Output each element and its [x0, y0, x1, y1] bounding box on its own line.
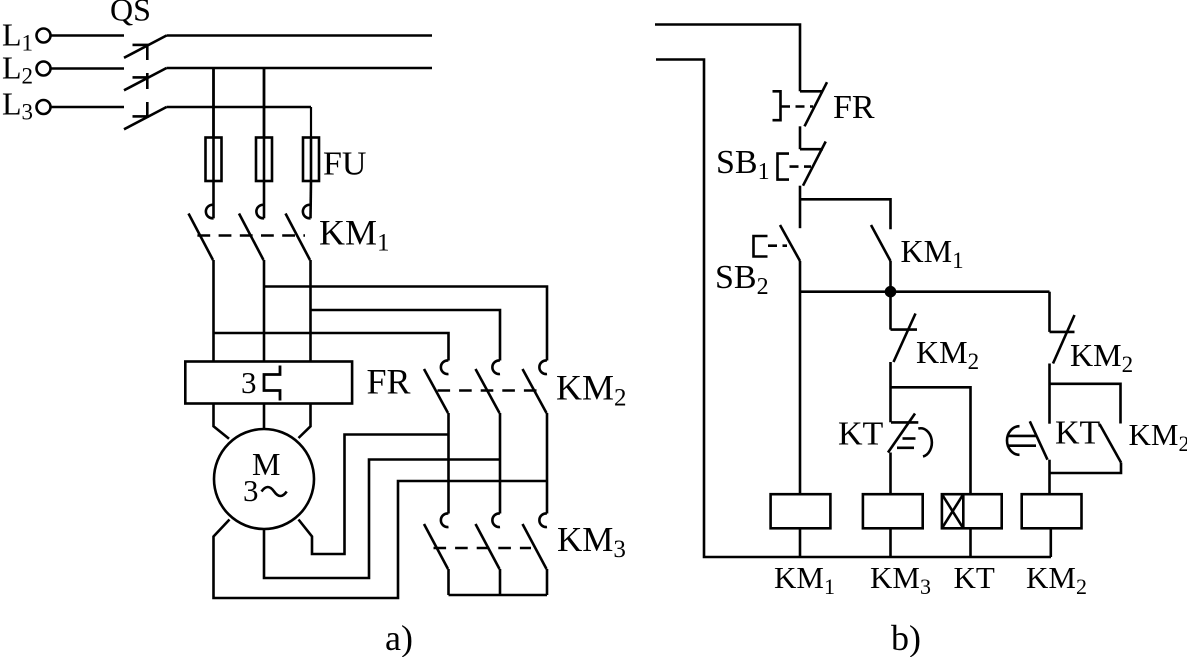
contactor KM2 pole 1 — [424, 360, 449, 513]
coil KT with X section — [942, 494, 1002, 557]
fuse FU pole 3 — [303, 138, 319, 219]
wire node line — [800, 290, 1050, 293]
wire motor U2 to KM2 pole3 — [214, 481, 548, 598]
contactor KM1 pole 2 — [239, 205, 264, 362]
svg-text:SB2: SB2 — [715, 259, 769, 300]
wire FR to motor W1 — [299, 404, 311, 439]
wire control left rail and bottom bar — [656, 60, 1051, 558]
label KM2 NC left — [916, 334, 979, 374]
KM2 linkage (dashed) — [438, 389, 538, 392]
svg-text:QS: QS — [110, 0, 151, 28]
switch QS pole 2 — [124, 68, 167, 90]
svg-text:KM2: KM2 — [1129, 417, 1187, 456]
thermal relay FR box — [185, 362, 352, 404]
KM1 linkage (dashed) — [197, 234, 305, 237]
svg-text:KT: KT — [1055, 415, 1101, 452]
label a) — [385, 618, 413, 657]
svg-text:FR: FR — [367, 362, 411, 402]
KM3 linkage (dashed) — [434, 547, 532, 550]
label KM2 NC right — [1070, 337, 1133, 377]
wire L3 to QS — [51, 106, 125, 109]
FR value label 3 — [241, 365, 257, 400]
wire motor V2 to KM2 pole2 — [264, 460, 500, 579]
svg-text:KM1: KM1 — [319, 213, 390, 257]
label KM3 — [557, 520, 626, 563]
QS linkage (dashed) — [146, 44, 149, 119]
KT delay symbol right — [1007, 426, 1037, 455]
label KM2 — [556, 368, 627, 412]
contactor KM2 pole 3 — [523, 360, 548, 513]
label L3 — [2, 86, 33, 125]
fuse FU pole 2 — [256, 138, 272, 219]
wire branch to KT coil — [891, 387, 971, 494]
FR heater symbol — [264, 366, 280, 401]
wire KM1 pole1 to KM2 pole1 — [214, 333, 449, 361]
wire node to KM2 NC left — [889, 292, 892, 330]
KT delay symbol left — [897, 428, 932, 456]
contactor KM3 pole 2 — [476, 513, 501, 595]
contact KT NC delayed (left) — [888, 414, 918, 495]
terminal L2 — [37, 62, 51, 76]
contact KM2 aux NO — [1051, 424, 1122, 473]
label QS — [110, 0, 151, 28]
svg-text:KM2: KM2 — [1070, 337, 1133, 377]
wire L2 bus — [167, 67, 433, 70]
svg-text:KM1: KM1 — [901, 233, 964, 273]
wire FR to motor V1 — [263, 404, 266, 430]
contact KM2 NC right — [1050, 315, 1075, 424]
pushbutton SB1 NC contact — [800, 142, 826, 229]
contactor KM1 pole 3 — [286, 205, 311, 362]
label KM1 — [319, 213, 390, 257]
contactor KM1 pole 1 — [189, 205, 214, 362]
label KT left — [838, 416, 884, 453]
svg-text:KM2: KM2 — [916, 334, 979, 374]
label b) — [891, 618, 921, 657]
wire drop to fuse FU1 — [212, 68, 215, 138]
wire L3 bus — [167, 106, 312, 109]
svg-text:L3: L3 — [2, 86, 33, 125]
svg-text:3: 3 — [241, 365, 257, 400]
label KM3 coil — [870, 560, 931, 599]
wire node to KM2 NC right — [1048, 292, 1051, 332]
wire control supply top — [655, 25, 800, 92]
label KM2 aux — [1129, 417, 1187, 456]
label KT coil — [954, 560, 995, 595]
wire KM1 pole3 to KM2 pole2 — [311, 310, 501, 361]
label FR control — [833, 89, 875, 126]
node junction dot — [886, 287, 895, 296]
wire L1 bus — [167, 34, 433, 37]
coil KM1 — [771, 494, 831, 557]
contact KT NO delayed (right) — [1030, 421, 1050, 494]
coil KM3 — [863, 494, 923, 557]
pushbutton SB2 NO contact — [780, 225, 800, 494]
switch QS pole 3 — [124, 107, 167, 129]
svg-text:KT: KT — [838, 416, 884, 453]
coil KM2 — [1022, 494, 1082, 557]
switch QS pole 1 — [124, 36, 167, 58]
svg-text:a): a) — [385, 618, 413, 657]
fuse FU pole 1 — [206, 138, 222, 219]
wire L1 to QS — [51, 34, 125, 37]
wire KM3 star bar — [449, 594, 548, 597]
wire motor W2 to KM2 pole1 — [299, 435, 449, 555]
label L1 — [2, 17, 33, 56]
wire drop to fuse FU2 — [263, 68, 266, 138]
svg-text:FU: FU — [323, 146, 366, 183]
label L2 — [2, 50, 33, 89]
motor label M — [252, 446, 280, 482]
wire branch to KM1 aux — [800, 199, 891, 229]
contactor KM3 pole 1 — [424, 513, 449, 595]
svg-text:KM2: KM2 — [1026, 560, 1087, 599]
contactor KM2 pole 2 — [476, 360, 501, 513]
terminal L1 — [37, 29, 51, 43]
svg-text:KM3: KM3 — [557, 520, 626, 563]
svg-text:SB1: SB1 — [716, 144, 770, 185]
svg-text:3: 3 — [243, 473, 259, 508]
svg-text:KT: KT — [954, 560, 995, 595]
wire branch to KM2 aux NO — [1050, 384, 1121, 424]
SB1 button symbol — [778, 154, 812, 180]
wire L2 to QS — [51, 67, 125, 70]
motor M circle — [214, 429, 314, 529]
label KT right — [1055, 415, 1101, 452]
motor label 3~ — [243, 473, 287, 508]
svg-text:KM1: KM1 — [774, 560, 835, 599]
wire FR to motor U1 — [214, 404, 230, 439]
svg-text:FR: FR — [833, 89, 875, 126]
label FU — [323, 146, 366, 183]
FR NC contact — [800, 82, 827, 149]
label SB1 — [716, 144, 770, 185]
svg-text:KM3: KM3 — [870, 560, 931, 599]
label FR — [367, 362, 411, 402]
svg-text:b): b) — [891, 618, 921, 657]
wire drop to fuse FU3 — [310, 107, 312, 138]
label KM1 aux — [901, 233, 964, 273]
FR release symbol — [773, 91, 814, 120]
wire KM1 pole2 to KM2 pole3 — [264, 287, 547, 361]
terminal L3 — [37, 100, 51, 114]
contact KM1 aux NO — [871, 225, 891, 292]
label KM1 coil — [774, 560, 835, 599]
contact KM2 NC left — [891, 314, 918, 423]
contactor KM3 pole 3 — [523, 513, 548, 595]
SB2 button symbol — [754, 236, 788, 257]
label SB2 — [715, 259, 769, 300]
label KM2 coil — [1026, 560, 1087, 599]
svg-text:KM2: KM2 — [556, 368, 627, 412]
